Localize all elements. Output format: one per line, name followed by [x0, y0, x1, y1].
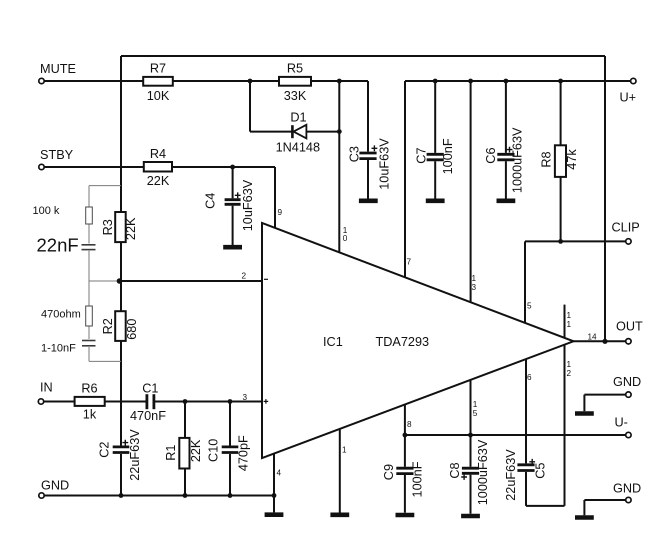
svg-text:1: 1 — [472, 274, 477, 283]
svg-text:R6: R6 — [81, 382, 97, 396]
svg-text:4: 4 — [277, 469, 282, 478]
svg-text:OUT: OUT — [616, 320, 643, 334]
svg-text:680: 680 — [125, 319, 139, 340]
svg-text:GND: GND — [613, 375, 641, 389]
svg-text:100nF: 100nF — [441, 138, 455, 174]
svg-text:3: 3 — [472, 283, 477, 292]
svg-text:14: 14 — [588, 333, 598, 342]
svg-text:U+: U+ — [620, 91, 637, 105]
svg-text:1: 1 — [567, 311, 572, 320]
svg-text:1000uF63V: 1000uF63V — [476, 439, 490, 505]
svg-text:10uF63V: 10uF63V — [377, 138, 391, 190]
svg-text:22nF: 22nF — [37, 235, 79, 256]
svg-text:47k: 47k — [565, 149, 579, 170]
svg-text:R1: R1 — [164, 445, 178, 461]
svg-text:470nF: 470nF — [130, 409, 166, 423]
svg-text:2: 2 — [242, 272, 247, 281]
svg-text:TDA7293: TDA7293 — [376, 335, 430, 349]
svg-text:22uF63V: 22uF63V — [128, 429, 142, 481]
svg-text:22uF63V: 22uF63V — [504, 449, 518, 501]
svg-text:100 k: 100 k — [33, 205, 60, 217]
svg-text:1: 1 — [342, 446, 347, 455]
svg-text:IN: IN — [40, 381, 53, 395]
svg-text:GND: GND — [613, 482, 641, 496]
svg-text:22K: 22K — [124, 217, 138, 240]
svg-text:R8: R8 — [540, 151, 554, 167]
svg-text:1: 1 — [473, 400, 478, 409]
svg-text:R7: R7 — [150, 62, 166, 76]
svg-text:5: 5 — [527, 302, 532, 311]
svg-text:10uF63V: 10uF63V — [241, 179, 255, 231]
svg-text:C5: C5 — [534, 463, 548, 479]
svg-text:3: 3 — [243, 393, 248, 402]
svg-text:1: 1 — [567, 360, 572, 369]
svg-text:D1: D1 — [290, 111, 306, 125]
svg-text:C7: C7 — [415, 147, 429, 163]
svg-text:1000uF63V: 1000uF63V — [510, 127, 524, 193]
svg-text:1: 1 — [567, 320, 572, 329]
svg-text:10K: 10K — [147, 89, 170, 103]
svg-text:5: 5 — [473, 409, 478, 418]
svg-text:7: 7 — [407, 258, 412, 267]
svg-text:1k: 1k — [83, 408, 97, 422]
svg-text:R4: R4 — [150, 147, 166, 161]
svg-text:1-10nF: 1-10nF — [41, 343, 76, 355]
svg-text:2: 2 — [567, 369, 572, 378]
svg-text:22K: 22K — [147, 174, 170, 188]
svg-text:R3: R3 — [101, 219, 115, 235]
svg-text:33K: 33K — [284, 89, 307, 103]
svg-text:C8: C8 — [448, 462, 462, 478]
svg-text:STBY: STBY — [40, 148, 74, 162]
svg-text:R5: R5 — [287, 62, 303, 76]
svg-text:100nF: 100nF — [411, 461, 425, 497]
svg-text:470ohm: 470ohm — [41, 309, 81, 321]
svg-text:0: 0 — [343, 234, 348, 243]
svg-text:U-: U- — [615, 416, 628, 430]
svg-text:9: 9 — [278, 208, 283, 217]
svg-text:GND: GND — [41, 479, 69, 493]
svg-text:470pF: 470pF — [237, 435, 251, 471]
svg-text:C9: C9 — [382, 464, 396, 480]
svg-text:6: 6 — [527, 373, 532, 382]
svg-text:IC1: IC1 — [323, 335, 343, 349]
svg-text:22K: 22K — [189, 439, 203, 462]
svg-text:8: 8 — [407, 420, 412, 429]
svg-text:C6: C6 — [484, 147, 498, 163]
svg-text:C1: C1 — [142, 382, 158, 396]
svg-text:CLIP: CLIP — [612, 221, 640, 235]
svg-text:MUTE: MUTE — [40, 62, 76, 76]
svg-text:C3: C3 — [347, 146, 361, 162]
svg-text:C4: C4 — [204, 193, 218, 209]
svg-text:C2: C2 — [97, 442, 111, 458]
svg-text:C10: C10 — [207, 439, 221, 462]
svg-text:1N4148: 1N4148 — [276, 141, 320, 155]
svg-text:R2: R2 — [101, 318, 115, 334]
